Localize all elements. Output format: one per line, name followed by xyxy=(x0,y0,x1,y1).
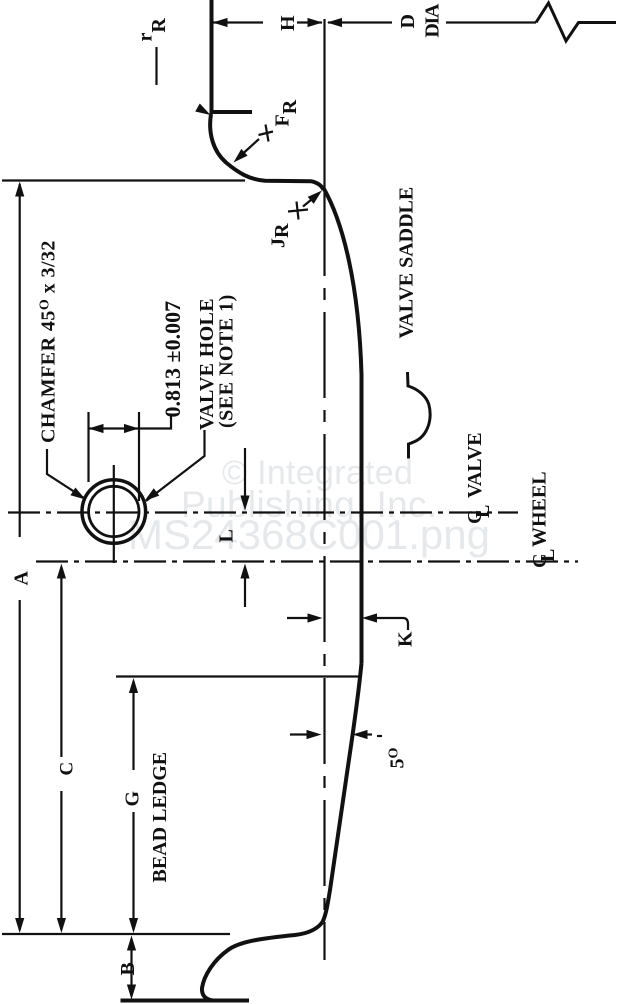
profile flange top lip xyxy=(210,110,253,114)
arrowhead K left xyxy=(308,613,323,622)
svg-text:L: L xyxy=(537,549,559,562)
svg-text:L: L xyxy=(216,529,238,542)
svg-text:K: K xyxy=(395,631,417,647)
arrowhead r_R leader xyxy=(195,104,213,119)
dim 5deg tail dash right xyxy=(377,735,382,737)
arrowhead L lower xyxy=(240,564,249,579)
valve hole label leader xyxy=(146,430,205,501)
extension line G datum xyxy=(116,675,359,677)
svg-text:CHAMFER 45O x 3/32: CHAMFER 45O x 3/32 xyxy=(38,240,60,443)
arrowhead 5deg right xyxy=(353,730,368,739)
break symbol zigzag xyxy=(536,3,616,41)
svg-text:FR: FR xyxy=(272,99,302,126)
r_R label leader stub xyxy=(155,47,157,85)
profile lower taper (5 deg) xyxy=(323,663,362,922)
arrowhead A top xyxy=(15,182,24,197)
dim 5deg stub left xyxy=(290,733,308,735)
valve hole outer circle (chamfer) xyxy=(82,480,146,544)
svg-text:H: H xyxy=(277,15,299,31)
arrowhead valve dia left xyxy=(89,424,104,433)
profile bottom edge xyxy=(121,999,250,1003)
valve saddle bracket curve xyxy=(408,372,431,459)
dim C line upper xyxy=(60,567,62,757)
svg-text:G: G xyxy=(121,791,143,807)
valve hole vertical centerline xyxy=(113,465,115,563)
valve hole inner circle xyxy=(89,486,139,536)
arrowhead D xyxy=(327,18,342,27)
svg-text:VALVE SADDLE: VALVE SADDLE xyxy=(396,187,418,339)
profile well S-curve xyxy=(202,922,323,1001)
profile flange edge vertical xyxy=(210,0,214,111)
svg-text:JR: JR xyxy=(268,223,294,248)
extension line bead-ledge datum xyxy=(2,933,230,935)
svg-text:rR: rR xyxy=(135,18,171,42)
extension line D/H datum vertical xyxy=(323,19,325,190)
valve hole dia leader to text xyxy=(139,414,171,429)
dim D leader line xyxy=(328,21,392,23)
arrowhead chamfer leader xyxy=(70,487,88,503)
svg-text:0.813 ±0.007: 0.813 ±0.007 xyxy=(160,301,185,418)
arrowhead valve hole leader xyxy=(142,488,160,504)
J_R leader xyxy=(303,195,317,207)
arrowhead C bottom xyxy=(57,918,66,933)
dim A line lower xyxy=(19,600,21,930)
dim K arrow line right with hook xyxy=(366,618,408,630)
arrowhead B top xyxy=(127,936,136,951)
dim G line lower xyxy=(132,812,134,930)
svg-text:BEAD LEDGE: BEAD LEDGE xyxy=(149,752,171,883)
arrowhead G bottom xyxy=(129,918,138,933)
arrowhead valve dia right xyxy=(124,424,139,433)
chamfer label leader xyxy=(47,449,84,498)
profile flange curl xyxy=(210,114,323,190)
dim B line xyxy=(130,939,132,996)
svg-text:(SEE NOTE 1): (SEE NOTE 1) xyxy=(216,294,238,428)
dim D line to break xyxy=(446,21,536,23)
F_R radius center mark xyxy=(259,125,274,142)
svg-text:C: C xyxy=(56,762,77,776)
svg-text:L: L xyxy=(472,505,494,518)
arrowhead H right xyxy=(308,18,323,27)
arrowhead F_R leader xyxy=(230,149,247,166)
centerline wheel (dash-dot) xyxy=(36,560,578,562)
arrowhead L upper xyxy=(240,496,249,511)
dim H line left xyxy=(213,21,263,23)
dim A line upper xyxy=(19,184,21,537)
arrowhead B bottom xyxy=(127,985,136,1000)
J_R radius center mark xyxy=(288,202,308,220)
valve hole dia extension line left xyxy=(87,412,89,482)
svg-text:5O: 5O xyxy=(387,748,409,769)
svg-text:MS24368C001.png: MS24368C001.png xyxy=(128,511,490,558)
dim G line upper xyxy=(132,681,134,770)
dim H line right xyxy=(297,21,322,23)
svg-text:VALVE: VALVE xyxy=(464,432,486,498)
phantom line bead-seat tangent (dashed vertical) xyxy=(323,190,325,960)
svg-text:D: D xyxy=(397,14,419,28)
centerline valve (dash-dot) xyxy=(8,511,518,513)
svg-text:B: B xyxy=(117,962,139,975)
arrowhead G top xyxy=(129,678,138,693)
svg-text:DIA: DIA xyxy=(422,3,444,38)
svg-text:A: A xyxy=(10,571,32,586)
valve hole dia extension line right xyxy=(138,412,140,501)
arrowhead J_R leader xyxy=(308,187,325,204)
dim L stub upper xyxy=(244,448,246,506)
arrowhead C top xyxy=(57,564,66,579)
arrowhead 5deg left xyxy=(307,730,322,739)
dim K arrow line left xyxy=(287,617,318,619)
profile bead seat upper taper xyxy=(324,188,362,663)
svg-text:WHEEL: WHEEL xyxy=(529,471,551,547)
dim L stub lower xyxy=(244,568,246,607)
arrowhead H left xyxy=(213,18,228,27)
dim C line lower xyxy=(60,791,62,930)
arrowhead A bottom xyxy=(15,918,24,933)
F_R leader xyxy=(238,139,259,158)
extension line A-top (rim edge datum) xyxy=(2,179,245,181)
dim 5deg stub right xyxy=(356,733,372,735)
arrowhead K right xyxy=(362,613,377,622)
valve hole dia dimension line xyxy=(89,427,140,429)
